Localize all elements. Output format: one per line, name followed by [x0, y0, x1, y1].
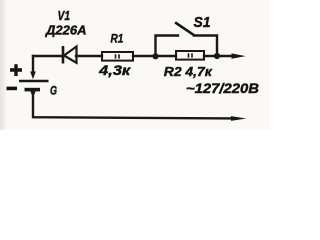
- resistor R2 body: [176, 51, 204, 60]
- diode V1 triangle: [64, 47, 77, 63]
- wire top-left from battery corner to diode: [33, 55, 62, 57]
- wire diode to R1: [76, 55, 102, 57]
- svg-text:Д226А: Д226А: [45, 23, 87, 37]
- svg-text:4,3к: 4,3к: [98, 63, 132, 78]
- resistor R2 power ticks: [189, 53, 193, 57]
- output arrow bottom: [231, 116, 246, 121]
- switch S1 blade: [176, 23, 194, 35]
- scan edge shading: [0, 0, 7, 130]
- resistor R1 body: [102, 52, 133, 61]
- battery G current arrow upper (points down): [30, 72, 36, 80]
- battery G plus plate (long): [19, 80, 49, 83]
- wire battery vertical upper: [32, 56, 34, 72]
- junction dot left: [152, 53, 158, 59]
- diode V1 cathode bar: [62, 46, 65, 64]
- svg-text:~127/220В: ~127/220В: [186, 81, 259, 96]
- output arrow top: [232, 53, 246, 58]
- minus sign: [7, 87, 18, 91]
- wire R2 to right junction and output: [204, 55, 236, 57]
- wire switch branch right riser: [194, 36, 217, 57]
- junction dot right: [214, 53, 220, 59]
- wire battery vertical lower to bottom rail: [33, 97, 232, 118]
- svg-text:S1: S1: [194, 15, 211, 31]
- wire R1 to left junction and R2: [133, 55, 176, 57]
- svg-text:R2 4,7к: R2 4,7к: [164, 64, 214, 79]
- wire switch branch left riser: [156, 36, 179, 57]
- plus sign: [10, 64, 22, 76]
- svg-text:V1: V1: [58, 9, 71, 23]
- battery G current arrow lower (points down): [30, 91, 35, 98]
- battery G minus plate (short thick): [25, 88, 41, 92]
- svg-text:G: G: [50, 83, 57, 97]
- svg-text:R1: R1: [111, 31, 124, 45]
- resistor R1 power ticks: [116, 54, 120, 58]
